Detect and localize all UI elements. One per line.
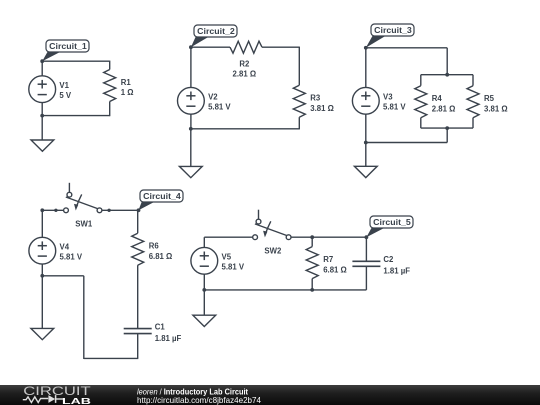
wire V3 bottom lead [365,114,367,142]
wire V4 bottom lead [41,264,43,276]
label R4 value [432,94,456,113]
svg-text:2.81 Ω: 2.81 Ω [432,104,456,113]
node bottom-left circuit 1 [40,114,44,118]
ground [31,328,54,339]
svg-text:R5: R5 [484,94,495,103]
wire top rail circuit 1 [42,60,110,62]
net flag Circuit_3 [366,24,414,48]
wire return riser circuit 4 [83,276,85,359]
resistor R6 [132,233,144,265]
node top-left circuit 2 [189,45,193,49]
svg-text:R1: R1 [121,78,132,87]
wire right rail to R6 [137,210,139,233]
svg-text:1 Ω: 1 Ω [121,88,134,97]
switch SW1 [64,183,102,213]
wire upper bus of parallel pair [421,74,473,76]
wire bottom rail circuit 2 [191,128,299,130]
node top-left circuit 3 [364,46,368,50]
wire right rail upper circuit 2 [298,47,300,86]
svg-text:1.81 µF: 1.81 µF [155,334,182,343]
label R2 value [233,59,257,78]
wire R7 bottom lead [311,279,313,290]
svg-text:5.81 V: 5.81 V [60,253,83,262]
wire bottom rail circuit 1 [42,115,110,117]
wire V2 top lead [190,47,192,87]
label SW1 [75,220,93,229]
svg-text:V1: V1 [59,81,69,90]
node Circuit_5 flag junction [365,235,369,239]
svg-text:V3: V3 [383,93,393,102]
wire R6 to C1 [137,265,139,328]
label R3 value [310,94,334,113]
wire switch row right segment circuit 4 [102,209,139,211]
svg-text:5.81 V: 5.81 V [222,263,245,272]
node bottom-left circuit 3 [364,141,368,145]
wire ground stem circuit 5 [203,290,205,315]
svg-text:2.81 Ω: 2.81 Ω [233,70,257,79]
wire R5 bottom lead [472,118,474,128]
resistor R7 [306,247,318,279]
wire bottom rail circuit 3 [366,142,447,144]
wire top rail circuit 3 [366,47,447,49]
svg-text:C1: C1 [155,322,166,331]
wire lower bus of parallel pair [421,127,473,129]
wire switch row left segment circuit 5 [204,236,252,238]
label V1 value [59,81,72,100]
svg-text:Circuit_1: Circuit_1 [49,42,87,51]
wire R4 top lead [420,75,422,86]
svg-text:R7: R7 [323,255,333,264]
switch SW2 [253,210,291,240]
wire right rail lower [109,102,111,117]
svg-text:http://circuitlab.com/c8jbfaz4: http://circuitlab.com/c8jbfaz4e2b74 [137,396,261,405]
voltage source V1 [29,76,56,103]
resistor R5 [467,86,479,118]
wire V5 top lead [203,237,205,247]
label C2 value [383,255,410,276]
resistor R2 [230,41,262,53]
ground [193,315,216,326]
svg-text:5 V: 5 V [59,91,72,100]
wire V2 bottom lead [190,114,192,129]
wire C2 bottom lead [365,266,367,290]
node corner top-left circuit 4 [40,208,44,212]
svg-text:R3: R3 [310,94,321,103]
net flag Circuit_5 [366,216,413,237]
svg-text:6.81 Ω: 6.81 Ω [323,265,347,274]
wire R7 top lead [311,237,313,246]
pin dot SW1 right terminal [107,209,110,212]
wire from lower bus down [446,128,448,142]
wire V1 bottom to node [41,103,43,116]
net flag Circuit_1 [42,40,89,61]
wire C1 bottom lead [137,334,139,359]
svg-text:C2: C2 [383,255,394,264]
resistor R3 [293,85,305,117]
label V3 value [383,93,406,112]
wire ground stem circuit 2 [190,129,192,167]
net flag Circuit_4 [139,190,184,210]
label R6 value [149,242,173,261]
voltage source V3 [352,87,379,114]
label V2 value [208,93,231,112]
node bottom-left circuit 2 [189,127,193,131]
label R1 value [121,78,134,97]
wire switch row left segment circuit 4 [42,209,63,211]
svg-text:3.81 Ω: 3.81 Ω [310,104,334,113]
ground [354,166,377,177]
wire left rail to V1 [41,61,43,76]
wire ground stem circuit 4 [41,276,43,329]
svg-text:Circuit_4: Circuit_4 [143,192,181,201]
wire V4 top lead [41,210,43,237]
pin dot SW1 left terminal [54,209,57,212]
label R5 value [484,94,508,113]
label V4 value [60,242,83,261]
net flag Circuit_2 [191,25,237,47]
node top-left circuit 1 [40,59,44,63]
svg-text:5.81 V: 5.81 V [383,103,406,112]
wire R4 bottom lead [420,118,422,128]
node V5 bottom circuit 5 [202,288,206,292]
svg-text:Circuit_3: Circuit_3 [374,26,412,35]
node upper bus junction [445,73,449,77]
label SW2 [264,247,282,256]
svg-text:SW2: SW2 [264,247,282,256]
wire switch row right segment circuit 5 [291,236,366,238]
resistor R4 [415,86,427,118]
voltage source V2 [178,87,205,114]
svg-text:R4: R4 [432,94,443,103]
resistor R1 [104,70,116,102]
wire bottom rail circuit 4 [84,357,139,359]
node lower bus junction [445,126,449,130]
wire ground stem circuit 3 [365,143,367,167]
capacitor C2 [352,261,380,266]
svg-text:6.81 Ω: 6.81 Ω [149,252,173,261]
label V5 value [222,253,245,272]
svg-text:R2: R2 [239,59,250,68]
voltage source V5 [191,247,218,274]
wire right rail lower circuit 2 [298,117,300,129]
voltage source V4 [29,237,56,264]
label C1 value [155,322,182,343]
ground [179,166,202,177]
svg-text:Circuit_5: Circuit_5 [373,218,411,227]
svg-text:SW1: SW1 [75,220,93,229]
wire top rail left segment circuit 2 [191,46,230,48]
node Circuit_4 flag junction [137,208,141,212]
wire right rail upper [109,61,111,70]
svg-text:3.81 Ω: 3.81 Ω [484,104,508,113]
node V4 bottom circuit 4 [40,274,44,278]
svg-text:LAB: LAB [62,396,91,405]
wire V4 bottom node to riser [42,275,84,277]
svg-text:5.81 V: 5.81 V [208,103,231,112]
svg-text:1.81 µF: 1.81 µF [383,267,410,276]
wire R5 top lead [472,75,474,86]
svg-text:V2: V2 [208,93,218,102]
wire bottom rail circuit 5 [204,289,366,291]
wire C2 top lead [365,237,367,261]
label R7 value [323,255,347,274]
ground [31,140,54,151]
wire ground stem circuit 1 [41,116,43,140]
node R7 bottom junction [310,288,314,292]
capacitor C1 [124,329,152,334]
wire V5 bottom lead [203,274,205,290]
node R7 top junction [310,235,314,239]
svg-text:V5: V5 [222,253,232,262]
svg-text:Circuit_2: Circuit_2 [197,27,235,36]
wire feed down to parallel pair [446,48,448,75]
wire top rail right segment circuit 2 [262,46,299,48]
wire V3 top lead [365,48,367,88]
svg-text:V4: V4 [60,242,70,251]
svg-text:R6: R6 [149,242,160,251]
